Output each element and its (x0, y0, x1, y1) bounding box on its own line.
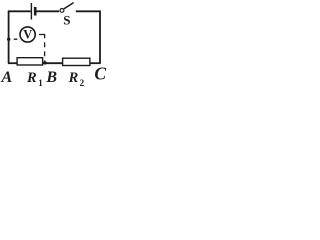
svg-text:2: 2 (80, 78, 85, 88)
wire A to R1 (8, 62, 17, 64)
svg-text:V: V (23, 28, 32, 42)
svg-text:C: C (94, 63, 106, 83)
wire left vertical (8, 11, 10, 64)
wire switch to top-right corner (76, 10, 100, 12)
junction node B dot (43, 61, 46, 64)
battery cell short thick plate (34, 7, 37, 16)
wire B to R2 (43, 62, 63, 64)
switch S pivot circle (60, 9, 64, 13)
wire battery to switch (37, 10, 60, 12)
battery cell long plate (30, 3, 32, 20)
resistor R2 box (63, 58, 90, 65)
svg-text:B: B (45, 69, 57, 86)
wire bottom-right segment (90, 62, 101, 64)
svg-text:A: A (1, 69, 13, 86)
junction dot on left wire (7, 38, 10, 41)
voltmeter U1 circle (20, 27, 35, 42)
svg-text:1: 1 (38, 78, 43, 88)
svg-text:S: S (63, 12, 70, 27)
resistor R1 box (17, 58, 42, 65)
wire top-left segment (8, 10, 31, 12)
switch S blade (64, 3, 74, 9)
dashed lead voltmeter left (14, 38, 22, 40)
svg-text:R: R (26, 70, 37, 86)
svg-text:R: R (68, 70, 79, 86)
wire right vertical (99, 11, 101, 64)
dashed lead voltmeter right down to B (39, 35, 45, 62)
